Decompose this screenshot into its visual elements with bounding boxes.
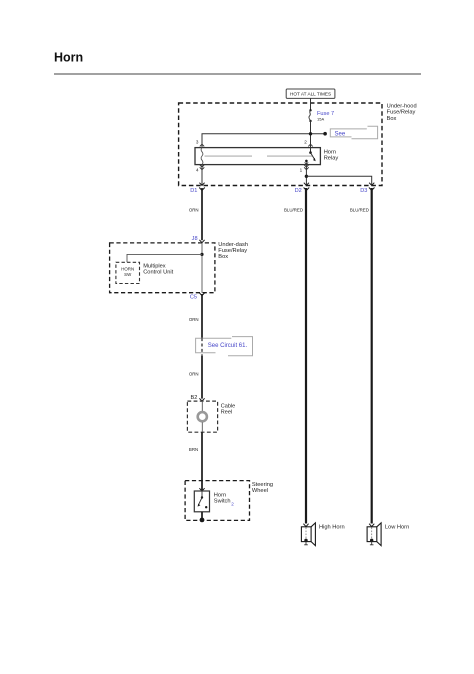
svg-text:Under-hood: Under-hood	[387, 103, 417, 109]
wire C5 to See Circuit box	[201, 294, 203, 338]
cable reel box (dashed)	[187, 401, 217, 432]
svg-text:HOT AT ALL TIMES: HOT AT ALL TIMES	[290, 92, 331, 97]
ground dot at steering wheel	[200, 518, 205, 523]
high horn connector arrow	[303, 524, 308, 527]
label Multiplex Control Unit	[143, 264, 173, 276]
svg-text:Cable: Cable	[221, 403, 235, 409]
svg-text:Horn: Horn	[214, 492, 226, 498]
wire horizontal to See link and pin3	[202, 134, 325, 147]
dashed wire through See Circuit box	[201, 338, 203, 356]
wire cable reel to horn switch	[201, 432, 203, 490]
relay box U1	[195, 148, 320, 165]
svg-text:C5: C5	[190, 294, 197, 300]
svg-text:ORN: ORN	[189, 317, 199, 322]
cable reel coil	[198, 401, 207, 432]
relay mechanical link	[205, 155, 253, 157]
svg-text:Steering: Steering	[252, 482, 273, 488]
title rule	[54, 73, 421, 75]
wire BLU/RED D2 to high horn	[305, 188, 307, 524]
connector D1	[199, 183, 205, 191]
svg-text:1: 1	[300, 168, 303, 173]
connector J8 arrow	[199, 240, 204, 243]
connector glyph pin4	[200, 165, 205, 170]
svg-text:3: 3	[196, 140, 199, 145]
svg-text:BLU/RED: BLU/RED	[350, 208, 369, 213]
See link box	[330, 126, 377, 139]
low horn connector arrow	[369, 524, 374, 527]
svg-text:ORN: ORN	[189, 372, 199, 377]
connector B2 arrow	[199, 398, 204, 401]
horn switch contacts	[198, 491, 208, 518]
wire inside under-dash box	[201, 243, 203, 293]
connector arrow at horn switch	[199, 488, 204, 491]
fuse F7 symbol	[309, 109, 312, 122]
svg-text:4: 4	[196, 168, 199, 173]
svg-text:BLU/RED: BLU/RED	[284, 208, 303, 213]
wire pin1 to D3	[306, 176, 371, 185]
label Steering Wheel	[252, 482, 273, 494]
wire fuse to pin2	[310, 121, 312, 148]
svg-text:See Circuit 61.: See Circuit 61.	[208, 343, 248, 349]
label Horn Switch	[214, 492, 231, 504]
svg-text:Wheel: Wheel	[252, 488, 268, 494]
relay switch	[305, 148, 316, 165]
label Under-hood Fuse/Relay Box	[387, 103, 417, 121]
connector glyph pin2	[308, 144, 312, 146]
svg-text:Fuse/Relay: Fuse/Relay	[218, 248, 247, 254]
connector C5 arrow	[199, 293, 204, 296]
low horn symbol	[367, 523, 381, 546]
svg-text:D1: D1	[190, 188, 197, 194]
relay coil	[201, 148, 203, 165]
label Under-dash Fuse/Relay Box	[218, 242, 248, 260]
connector D3	[369, 183, 375, 191]
HOT AT ALL TIMES box	[286, 89, 335, 98]
svg-text:Box: Box	[387, 116, 397, 122]
under-hood fuse/relay box (dashed)	[179, 103, 382, 186]
svg-text:SW: SW	[124, 272, 132, 277]
label Cable Reel	[221, 403, 235, 415]
connector glyph pin3	[200, 144, 204, 146]
svg-text:See: See	[335, 132, 346, 138]
svg-text:15A: 15A	[317, 117, 324, 122]
wire pin4 to D1	[201, 165, 203, 186]
svg-text:Box: Box	[218, 254, 228, 260]
junction dot to horn sw	[200, 253, 203, 256]
label Horn Relay	[324, 149, 339, 161]
svg-text:D3: D3	[360, 188, 367, 194]
wire See box to cable reel	[201, 356, 203, 399]
high horn symbol	[301, 523, 315, 546]
svg-text:Multiplex: Multiplex	[143, 264, 166, 270]
wire pin1 down	[305, 165, 307, 186]
wire ORN D1 to J8	[201, 188, 203, 240]
connector glyph pin1	[304, 165, 309, 170]
steering wheel box (dashed)	[185, 481, 249, 521]
svg-text:Control Unit: Control Unit	[143, 270, 173, 276]
svg-text:Low Horn: Low Horn	[385, 524, 409, 530]
under-dash fuse/relay box (dashed)	[110, 243, 215, 293]
svg-text:J8: J8	[192, 236, 198, 242]
svg-text:Reel: Reel	[221, 410, 232, 416]
svg-text:Horn: Horn	[54, 50, 83, 64]
See Circuit 61 box	[196, 337, 253, 356]
svg-text:ORN: ORN	[189, 207, 199, 212]
bullet before See box	[323, 132, 327, 136]
wire BLU/RED D3 to low horn	[371, 188, 373, 524]
wire branch to HORN SW	[127, 254, 202, 262]
HORN SW box (dashed)	[116, 262, 140, 283]
svg-text:Under-dash: Under-dash	[218, 242, 248, 248]
svg-text:High Horn: High Horn	[319, 524, 345, 530]
svg-text:2: 2	[231, 501, 234, 506]
svg-text:Relay: Relay	[324, 156, 339, 162]
connector D2	[304, 183, 310, 191]
svg-text:BRN: BRN	[189, 447, 198, 452]
svg-text:Horn: Horn	[324, 149, 336, 155]
horn switch box	[194, 491, 209, 512]
svg-text:2: 2	[304, 140, 307, 145]
svg-text:B2: B2	[191, 395, 198, 401]
svg-text:Fuse/Relay: Fuse/Relay	[387, 110, 416, 116]
junction dot pin1 branch	[305, 175, 308, 178]
junction dot at fuse wire	[309, 132, 312, 135]
wire from HOT box to fuse	[310, 98, 312, 110]
svg-text:D2: D2	[295, 188, 302, 194]
svg-text:Switch: Switch	[214, 499, 231, 505]
